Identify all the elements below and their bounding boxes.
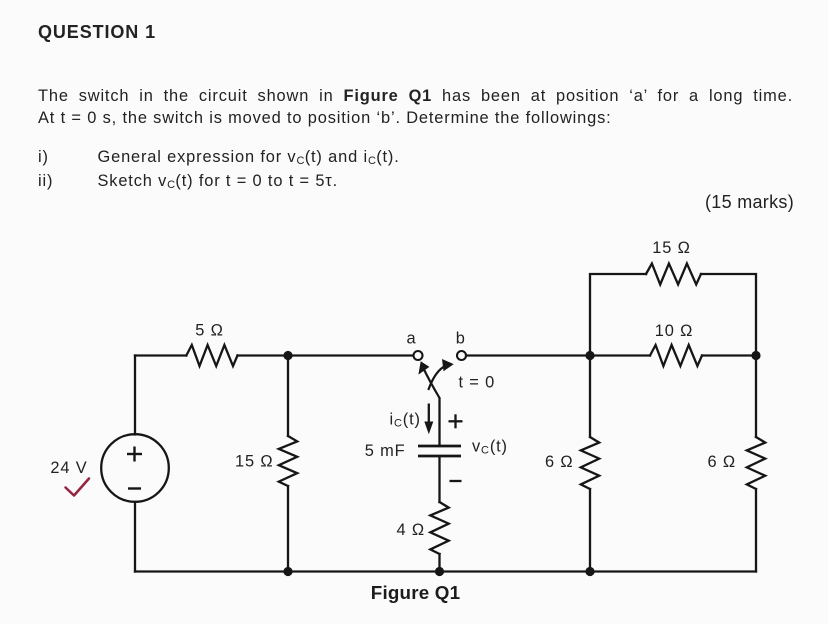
svg-text:6 Ω: 6 Ω xyxy=(708,453,736,471)
svg-text:b: b xyxy=(456,330,466,348)
svg-text:Figure Q1: Figure Q1 xyxy=(371,582,460,603)
svg-text:6 Ω: 6 Ω xyxy=(545,453,573,471)
svg-text:5 Ω: 5 Ω xyxy=(195,322,223,340)
svg-text:10 Ω: 10 Ω xyxy=(655,322,693,340)
svg-text:5 mF: 5 mF xyxy=(365,442,406,460)
svg-text:t = 0: t = 0 xyxy=(459,374,496,392)
svg-text:iC(t): iC(t) xyxy=(390,411,421,430)
svg-text:4 Ω: 4 Ω xyxy=(397,521,425,539)
svg-text:15 Ω: 15 Ω xyxy=(235,453,273,471)
svg-text:15 Ω: 15 Ω xyxy=(652,239,690,257)
svg-text:a: a xyxy=(407,330,417,348)
svg-text:vC(t): vC(t) xyxy=(472,438,508,457)
svg-text:24 V: 24 V xyxy=(50,459,87,477)
